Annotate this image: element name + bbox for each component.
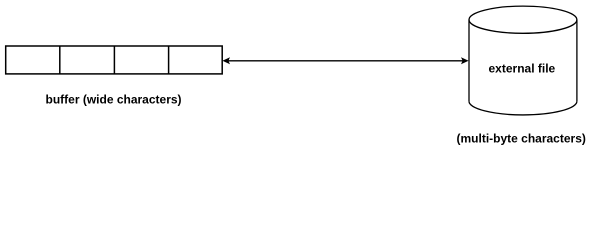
cell divider 2 — [113, 46, 115, 74]
cylinder: external file — [469, 6, 577, 115]
right arrowhead — [461, 57, 469, 64]
cell divider 1 — [59, 46, 61, 74]
cylinder left side — [468, 20, 470, 102]
cylinder top ellipse — [469, 6, 577, 33]
cell divider 3 — [168, 46, 170, 74]
left arrowhead — [222, 57, 230, 64]
svg-text:buffer (wide characters): buffer (wide characters) — [46, 93, 182, 107]
buffer box (4 cells) — [6, 46, 223, 74]
cylinder bottom arc — [469, 101, 577, 115]
cylinder right side — [576, 20, 578, 102]
double-headed arrow (wire) — [227, 60, 464, 62]
svg-text:external file: external file — [489, 62, 556, 76]
svg-text:(multi-byte characters): (multi-byte characters) — [457, 132, 586, 146]
